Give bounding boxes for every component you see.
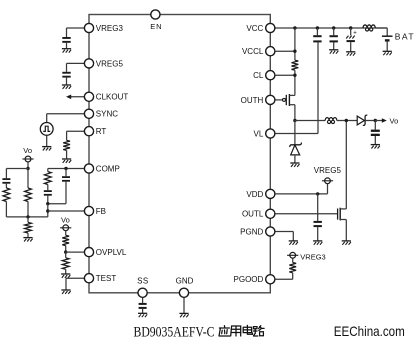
svg-text:PGND: PGND: [240, 227, 263, 236]
svg-text:VL: VL: [254, 129, 264, 138]
svg-text:Vo: Vo: [390, 117, 399, 126]
svg-text:FB: FB: [96, 207, 106, 216]
svg-text:+: +: [353, 31, 357, 37]
svg-text:EN: EN: [150, 22, 162, 31]
svg-text:TEST: TEST: [96, 274, 117, 283]
svg-text:VREG5: VREG5: [314, 166, 342, 175]
svg-text:GND: GND: [176, 276, 194, 285]
svg-text:COMP: COMP: [96, 164, 120, 173]
svg-text:VCCL: VCCL: [242, 47, 264, 56]
svg-text:EEChina.com: EEChina.com: [334, 323, 405, 339]
svg-text:OUTH: OUTH: [241, 96, 264, 105]
svg-text:VREG5: VREG5: [96, 59, 124, 68]
svg-text:RT: RT: [96, 127, 107, 136]
svg-text:Vo: Vo: [23, 146, 32, 155]
svg-text:BD9035AEFV-C: BD9035AEFV-C: [134, 324, 215, 340]
svg-text:BAT: BAT: [395, 32, 415, 42]
svg-text:OUTL: OUTL: [242, 210, 264, 219]
svg-text:SYNC: SYNC: [96, 110, 118, 119]
svg-text:SS: SS: [137, 276, 148, 285]
svg-text:VREG3: VREG3: [96, 24, 124, 33]
svg-text:Vo: Vo: [61, 215, 70, 224]
svg-text:VDD: VDD: [246, 190, 263, 199]
svg-text:PGOOD: PGOOD: [234, 275, 264, 284]
svg-text:OVPLVL: OVPLVL: [96, 248, 127, 257]
svg-text:VREG3: VREG3: [300, 252, 325, 261]
svg-text:VCC: VCC: [246, 24, 263, 33]
svg-text:CLKOUT: CLKOUT: [96, 93, 129, 102]
svg-text:CL: CL: [253, 71, 264, 80]
